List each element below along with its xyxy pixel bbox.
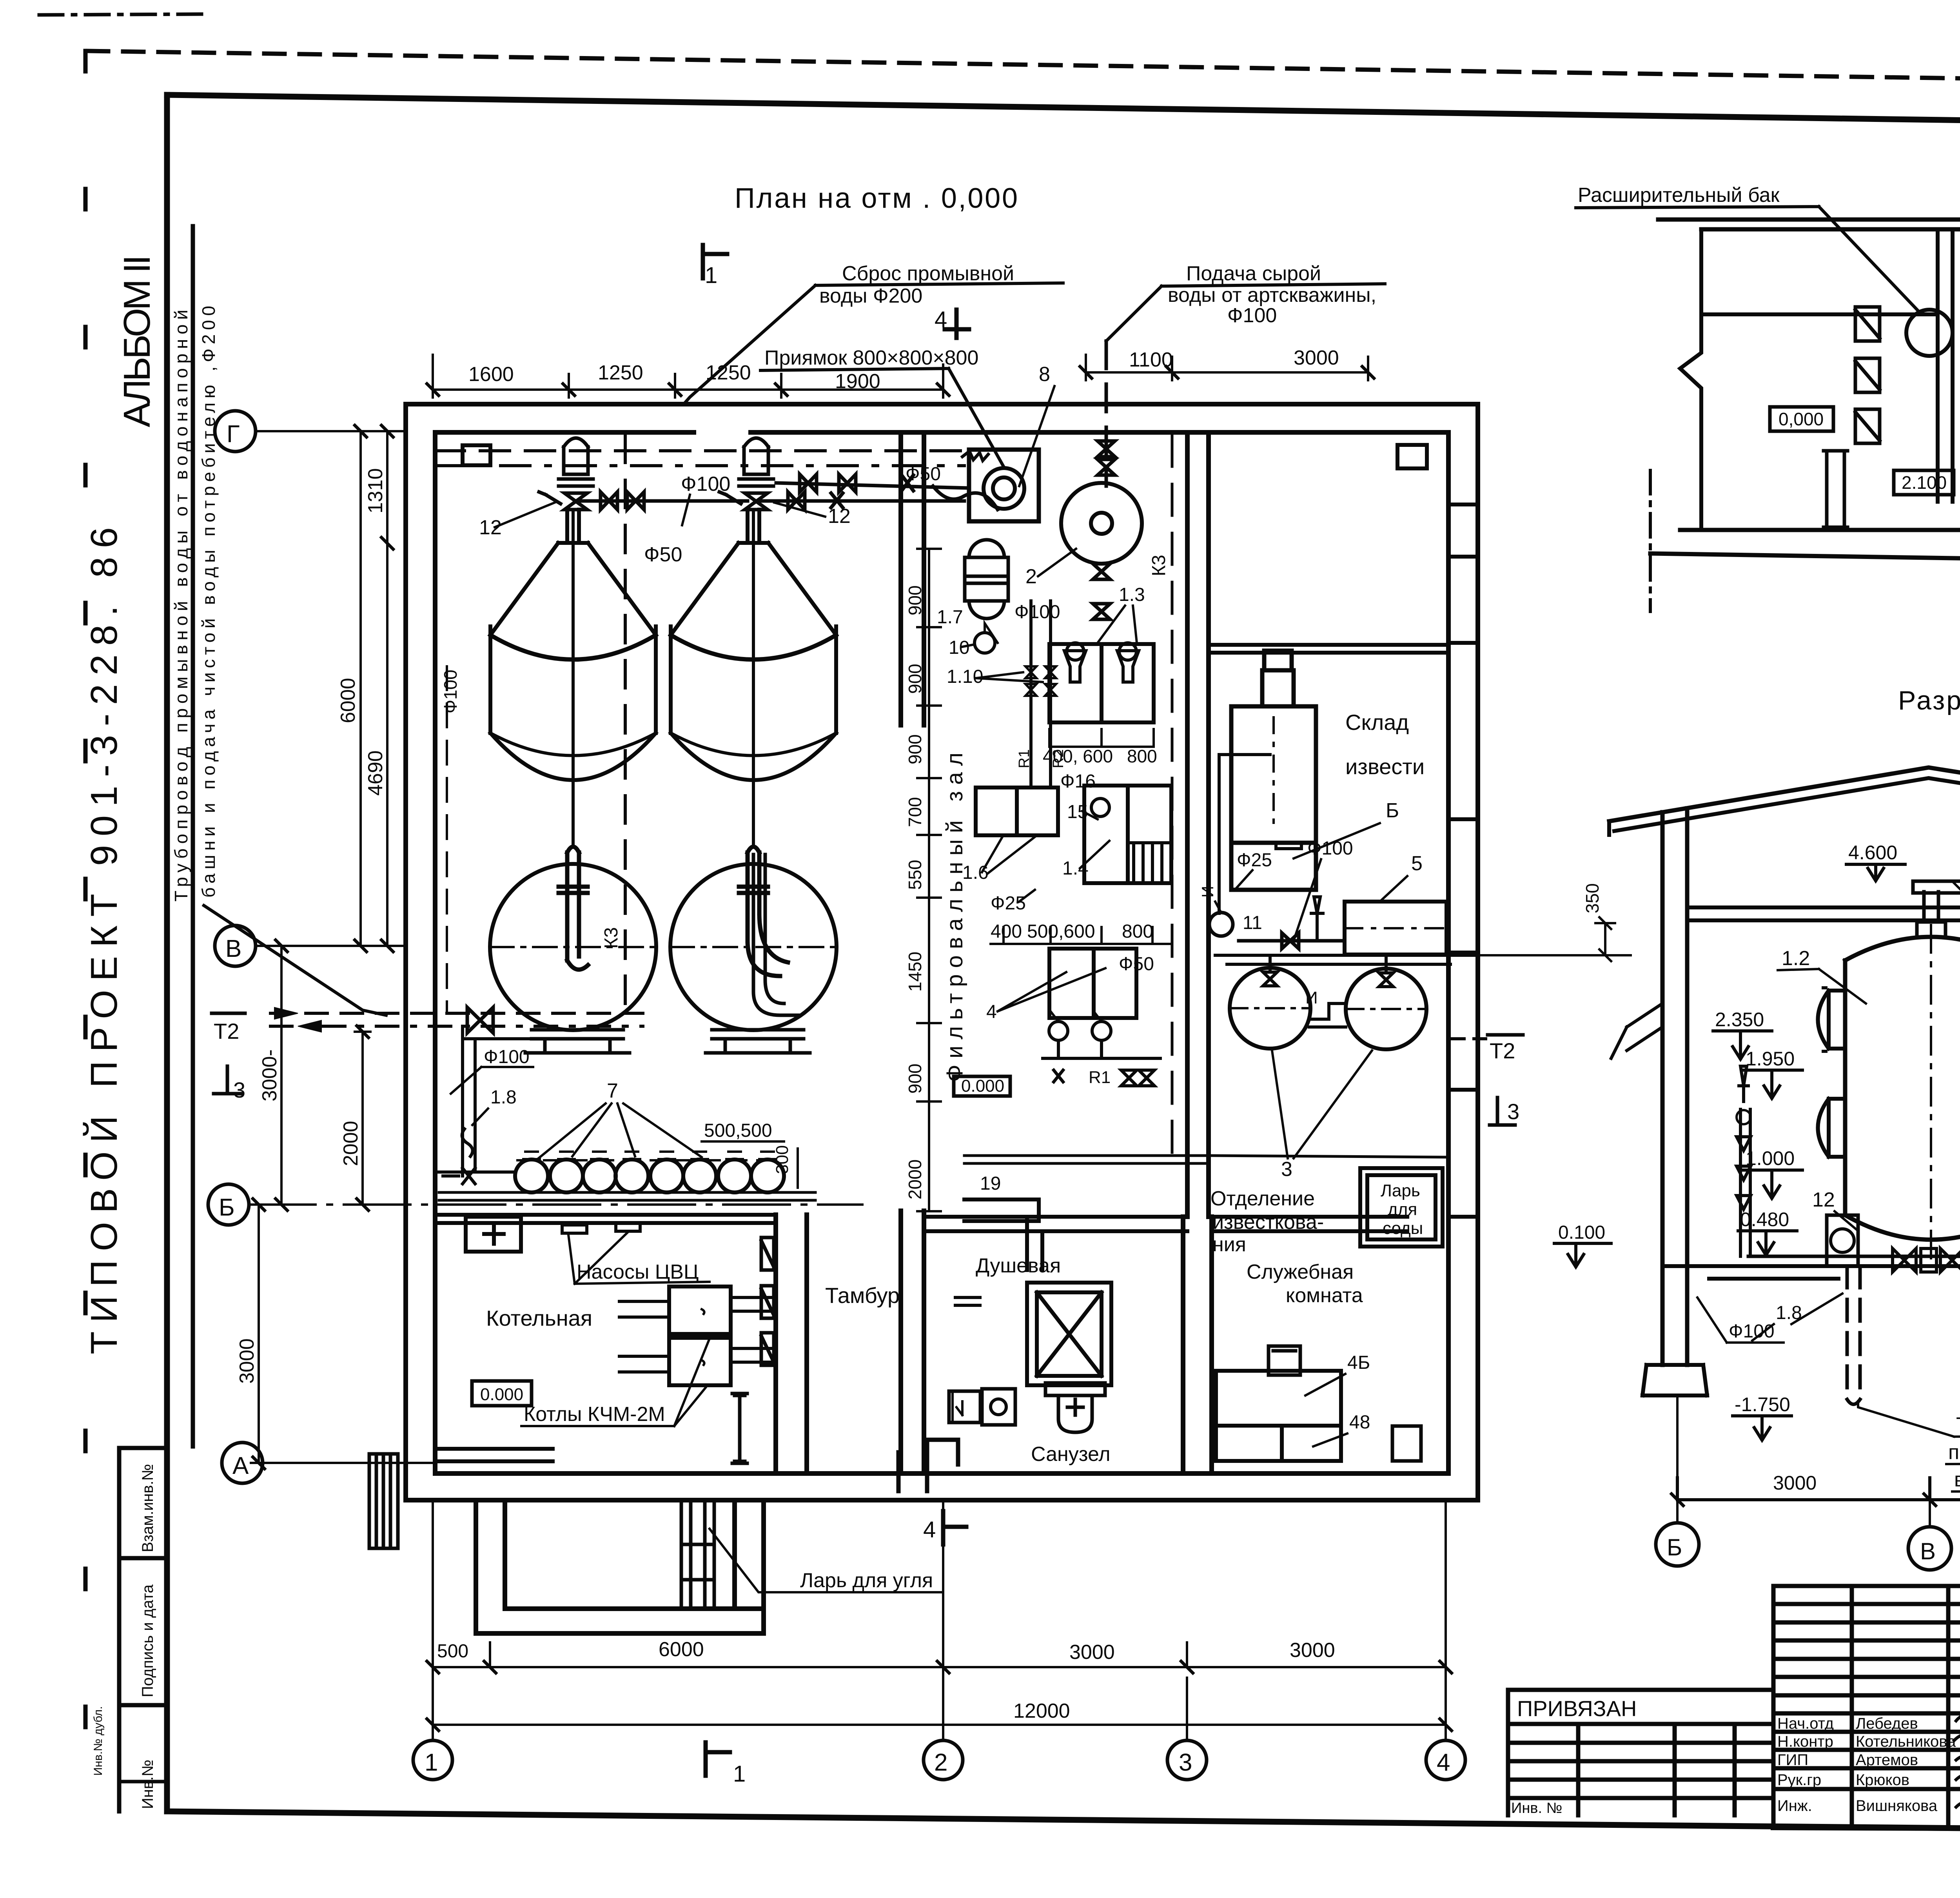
top wall lines — [1658, 215, 1960, 229]
hatched cabinets — [1855, 307, 1880, 443]
svg-text:1: 1 — [705, 263, 717, 288]
svg-text:2: 2 — [1025, 565, 1037, 588]
svg-text:3: 3 — [1281, 1158, 1292, 1181]
svg-text:2000: 2000 — [905, 1159, 925, 1199]
top dim chain 1600/1250/1250/1900 — [433, 355, 943, 397]
svg-text:Котлы КЧМ-2М: Котлы КЧМ-2М — [524, 1403, 665, 1426]
0.000 box filter hall — [954, 1076, 1010, 1096]
inner frame left — [164, 95, 170, 1811]
right tank drain elbow — [753, 855, 800, 1015]
bottom wall — [1650, 530, 1960, 568]
svg-text:Котельная: Котельная — [486, 1306, 592, 1330]
svg-text:7: 7 — [607, 1080, 618, 1102]
svg-text:1.8: 1.8 — [490, 1087, 517, 1108]
svg-text:Расширительный бак: Расширительный бак — [1578, 184, 1780, 207]
box 1.7 — [965, 557, 1008, 601]
grid bubble Б — [208, 1184, 249, 1225]
left dim 3000 (В-Б) — [274, 946, 290, 1205]
R1 R2 riser pipes — [1031, 601, 1051, 788]
svg-text:Крюков: Крюков — [1856, 1771, 1909, 1789]
long pipe y2437 — [1215, 955, 1478, 964]
svg-text:R1: R1 — [1016, 749, 1033, 768]
roof outline — [1609, 768, 1960, 850]
svg-text:Ф100: Ф100 — [1014, 602, 1060, 622]
chair — [1269, 1346, 1300, 1375]
svg-text:400: 400 — [991, 921, 1022, 942]
svg-text:Тамбур: Тамбур — [825, 1283, 900, 1308]
inner frame top — [167, 95, 1960, 129]
svg-text:800: 800 — [1122, 921, 1153, 942]
svg-text:Разрез 1-1: Разрез 1-1 — [1898, 686, 1960, 715]
filter vessel 1.2 right circle — [670, 864, 837, 1030]
svg-text:8: 8 — [1039, 363, 1050, 386]
piping below unit 4 — [1043, 1040, 1160, 1086]
leader from note to pipe T2 — [204, 905, 386, 1015]
svg-text:Б: Б — [219, 1194, 235, 1221]
level boxes — [1770, 407, 1833, 431]
tank 1.1 right: body — [671, 626, 836, 780]
inner frame bottom — [167, 1811, 1960, 1834]
svg-text:Сброс промывной: Сброс промывной — [842, 262, 1014, 285]
toilet — [1045, 1383, 1105, 1432]
tank nozzles left — [1818, 991, 1846, 1049]
svg-text:Подпись и дата: Подпись и дата — [139, 1584, 156, 1697]
raw water dashed drop — [1105, 341, 1108, 486]
svg-text:Лебедев: Лебедев — [1856, 1715, 1918, 1732]
radiators on wall — [761, 1238, 774, 1365]
tank 1.1 right: center pipe — [752, 510, 755, 847]
svg-text:Рук.гр: Рук.гр — [1777, 1771, 1821, 1789]
column I-beam at tambour — [732, 1394, 747, 1463]
svg-text:В: В — [225, 935, 241, 962]
svg-text:4: 4 — [986, 1002, 997, 1022]
svg-text:Ф100: Ф100 — [1227, 304, 1277, 327]
outer dashed sheet border left — [83, 51, 88, 1770]
floor line — [1662, 1266, 1960, 1279]
svg-text:1.000: 1.000 — [1746, 1147, 1795, 1169]
svg-text:11: 11 — [1243, 913, 1262, 933]
svg-text:10: 10 — [949, 637, 969, 658]
svg-text:800: 800 — [1127, 746, 1157, 766]
valves above pump 2 — [1098, 441, 1115, 475]
top dim chain 1100/3000 — [1086, 355, 1368, 380]
left break edge — [1680, 229, 1701, 530]
svg-text:Ф25: Ф25 — [1237, 850, 1272, 871]
svg-text:для: для — [1388, 1200, 1417, 1219]
grid bubble 4 — [1426, 1740, 1465, 1780]
outer wall left — [406, 404, 435, 1500]
svg-text:0.100: 0.100 — [1558, 1222, 1605, 1243]
left standpipe w/ valves — [1740, 1109, 1750, 1256]
svg-text:3000: 3000 — [1294, 347, 1339, 369]
svg-text:Приямок 800×800×800: Приямок 800×800×800 — [764, 347, 978, 369]
small boxes and leaders НасосыЦВЦ — [562, 1223, 640, 1233]
svg-text:4: 4 — [1437, 1749, 1450, 1776]
desk/sofa — [1216, 1371, 1341, 1461]
svg-text:Котельникова: Котельникова — [1856, 1733, 1956, 1750]
ladder left room — [1824, 451, 1847, 527]
pipe И down left of bin — [1219, 755, 1270, 913]
lime mixers 3 — [1230, 968, 1310, 1049]
svg-text:Ф50: Ф50 — [644, 543, 682, 566]
svg-text:2: 2 — [934, 1749, 947, 1776]
svg-text:3: 3 — [1507, 1099, 1519, 1124]
top pipe from tank — [1913, 881, 1960, 922]
svg-text:R2: R2 — [1050, 749, 1067, 768]
left dim chain 6000 — [353, 431, 406, 946]
left axis dash-dot — [1649, 470, 1652, 611]
expansion tank circle — [1906, 310, 1953, 356]
svg-text:1.3: 1.3 — [1119, 584, 1145, 605]
svg-text:Санузел: Санузел — [1031, 1443, 1111, 1466]
svg-text:воды Ф200: воды Ф200 — [819, 285, 922, 307]
lime water pipe across hall — [964, 1156, 1207, 1163]
privyazan table — [1508, 1690, 1773, 1815]
valve on left tank top — [539, 492, 587, 510]
svg-text:АЛЬБОМ II: АЛЬБОМ II — [116, 255, 158, 427]
vertical dim chain x2370 — [917, 549, 941, 1211]
K3 dashed riser — [624, 435, 627, 1015]
softener tank 1.1 left: cone — [490, 510, 656, 635]
electrical box with + — [466, 1217, 521, 1252]
svg-text:6000: 6000 — [659, 1638, 704, 1661]
svg-text:4Б: 4Б — [1347, 1352, 1370, 1373]
svg-text:Ф50: Ф50 — [1119, 954, 1154, 974]
svg-text:900: 900 — [905, 585, 925, 615]
salt boxes 1.6 — [976, 788, 1058, 835]
svg-text:500,600: 500,600 — [1027, 921, 1095, 942]
top wall inner small square — [463, 445, 490, 465]
softener tank 1.1 right: cone — [671, 510, 836, 635]
page top fold dash-dot line — [39, 14, 204, 15]
T2 dashed pipes entering left wall — [270, 1012, 643, 1015]
svg-text:Ларь для угля: Ларь для угля — [800, 1569, 933, 1592]
box 5 — [1345, 902, 1446, 954]
svg-text:известкова-: известкова- — [1212, 1211, 1324, 1234]
svg-text:Инв.№ дубл.: Инв.№ дубл. — [92, 1706, 105, 1776]
svg-text:Трубопровод промывной воды от: Трубопровод промывной воды от водонапорн… — [171, 310, 191, 902]
svg-text:извести: извести — [1345, 754, 1425, 779]
svg-text:3000: 3000 — [236, 1338, 258, 1384]
T2 pipe exit right + symbols — [1448, 1037, 1486, 1040]
svg-text:0.000: 0.000 — [480, 1385, 523, 1404]
svg-text:1.950: 1.950 — [1746, 1048, 1795, 1070]
svg-text:Б: Б — [1667, 1534, 1682, 1560]
pump 2 (degasser) — [1061, 483, 1142, 564]
pump pit box (приямок) — [969, 450, 1039, 521]
svg-text:Трубопровод подачи чистой: Трубопровод подачи чистой воды — [1956, 1414, 1960, 1436]
svg-text:300: 300 — [773, 1145, 792, 1174]
stair rect outside left — [369, 1454, 398, 1548]
svg-text:1100: 1100 — [1129, 348, 1173, 371]
svg-text:4: 4 — [935, 307, 947, 332]
svg-text:И: И — [1198, 886, 1217, 898]
coal chute — [681, 1500, 714, 1609]
grid bubble 2 — [924, 1740, 963, 1780]
grid bubble 3 — [1167, 1740, 1207, 1780]
svg-text:3000-: 3000- — [258, 1049, 281, 1101]
tank 1.1 left: top relief fitting — [559, 438, 593, 486]
svg-text:0,000: 0,000 — [1779, 409, 1824, 429]
wash pipe with valves y1232 — [776, 474, 969, 492]
svg-text:900: 900 — [905, 1063, 925, 1094]
svg-text:12000: 12000 — [1013, 1700, 1070, 1722]
svg-text:ПРИВЯЗАН: ПРИВЯЗАН — [1517, 1696, 1637, 1721]
svg-text:Инж.: Инж. — [1777, 1797, 1812, 1815]
svg-text:И: И — [1305, 988, 1318, 1007]
svg-text:Взам.инв.№: Взам.инв.№ — [139, 1464, 156, 1552]
grid bubble 1 — [413, 1740, 452, 1780]
svg-text:1: 1 — [733, 1761, 746, 1787]
svg-text:3: 3 — [233, 1078, 245, 1102]
svg-text:Ф100: Ф100 — [440, 670, 461, 713]
pipe between tank tops — [579, 499, 748, 503]
svg-text:Артемов: Артемов — [1856, 1751, 1918, 1769]
valves on floor pipe left — [1893, 1248, 1960, 1272]
svg-text:Ф100: Ф100 — [681, 473, 730, 495]
svg-text:Ф25: Ф25 — [991, 893, 1026, 914]
signature table — [1773, 1586, 1960, 1827]
svg-text:R1: R1 — [1089, 1068, 1111, 1087]
1.2 right supports — [706, 1030, 810, 1053]
Ларь для соды box — [1360, 1168, 1443, 1247]
valves below pump 2 — [1093, 564, 1110, 619]
bottom dim 12000 — [433, 1724, 1446, 1726]
pipe down inside wall — [463, 1026, 475, 1176]
shower block top wall — [924, 1217, 1187, 1231]
svg-text:12: 12 — [1812, 1189, 1835, 1211]
svg-text:Склад: Склад — [1345, 710, 1409, 735]
svg-text:водонапорной башни Ф200: водонапорной башни Ф200 — [1954, 1468, 1960, 1491]
outer wall top — [406, 404, 1478, 432]
boilers — [669, 1287, 731, 1385]
svg-text:350: 350 — [1582, 883, 1602, 913]
svg-text:4690: 4690 — [364, 750, 387, 796]
signatures squiggles — [1954, 1715, 1960, 1811]
stamp box Взам.инв.№ — [119, 1448, 167, 1811]
dim under filters — [1049, 729, 1154, 747]
svg-text:3000: 3000 — [1290, 1639, 1335, 1662]
bottom dim chain 500/6000/3000/3000 — [433, 1642, 1446, 1667]
svg-text:Т2: Т2 — [214, 1019, 239, 1043]
inner wall W1 vertical lower (tambour right) — [901, 1211, 924, 1473]
svg-text:Б: Б — [1386, 799, 1399, 822]
svg-text:ния: ния — [1212, 1233, 1246, 1256]
svg-text:Н.контр: Н.контр — [1777, 1733, 1833, 1750]
svg-text:Душевая: Душевая — [976, 1254, 1061, 1277]
left dim 2000 — [355, 1032, 370, 1205]
cabinet right — [1392, 1426, 1421, 1461]
stamp box Подпись и дата — [119, 1703, 167, 1707]
svg-text:4.600: 4.600 — [1848, 842, 1897, 864]
wall under upper-right room — [1209, 645, 1448, 653]
svg-text:3000: 3000 — [1069, 1641, 1115, 1664]
svg-text:Отделение: Отделение — [1210, 1187, 1315, 1210]
grid bubble А — [222, 1443, 263, 1483]
svg-text:Ф100: Ф100 — [1729, 1321, 1775, 1342]
pump foundation lines — [439, 1192, 815, 1200]
1.2 left supports — [525, 1030, 630, 1053]
svg-text:3000: 3000 — [1773, 1472, 1817, 1494]
svg-text:Инв.№: Инв.№ — [139, 1760, 156, 1809]
stamp box Инв № подл — [119, 1780, 167, 1784]
dim line 400/500,600/800 — [991, 927, 1171, 944]
svg-text:2.350: 2.350 — [1715, 1009, 1764, 1031]
pipes between mixers — [1309, 1003, 1346, 1027]
grid bubble В — [215, 925, 256, 966]
tank 1.1 left: body — [490, 626, 656, 780]
section mark 4 top — [945, 310, 969, 338]
twin unit 4 — [1049, 949, 1136, 1018]
svg-text:Ф16: Ф16 — [1060, 771, 1096, 792]
svg-text:1600: 1600 — [468, 363, 514, 386]
tank 1.2 cylinder — [1845, 960, 1960, 1215]
valve on T2 at wall — [467, 1007, 493, 1033]
svg-text:Служебная: Служебная — [1247, 1261, 1354, 1283]
svg-text:комната: комната — [1286, 1284, 1363, 1307]
svg-text:4: 4 — [923, 1517, 936, 1542]
svg-text:5: 5 — [1411, 852, 1423, 875]
svg-text:Инв. №: Инв. № — [1511, 1800, 1562, 1816]
K3 drain dashed line filter hall — [1171, 435, 1174, 1156]
valves between tanks — [601, 492, 644, 510]
left room walls — [1701, 229, 1953, 502]
svg-text:500,500: 500,500 — [704, 1120, 772, 1141]
svg-text:2.100: 2.100 — [1902, 472, 1947, 493]
left column — [1662, 808, 1687, 1365]
dim chain bottom — [1677, 1478, 1960, 1500]
top right room window sill box — [1397, 445, 1427, 468]
coal bin walls — [476, 1500, 764, 1633]
svg-text:соды: соды — [1383, 1219, 1423, 1238]
svg-text:1900: 1900 — [835, 370, 880, 393]
twin filters 1.3 — [1049, 644, 1154, 722]
pump row circles — [515, 1159, 548, 1192]
svg-text:Вишнякова: Вишнякова — [1856, 1797, 1938, 1815]
svg-text:12: 12 — [828, 505, 851, 528]
svg-text:башни и подача чистой воды пот: башни и подача чистой воды потребителю ,… — [198, 306, 219, 898]
svg-text:Г: Г — [227, 421, 240, 448]
svg-text:Ф100: Ф100 — [1307, 838, 1353, 859]
pipe tank2 to right w/ valves — [759, 492, 964, 510]
valve on right tank top — [719, 492, 768, 510]
svg-text:ГИП: ГИП — [1777, 1751, 1808, 1769]
svg-text:0.000: 0.000 — [961, 1076, 1004, 1096]
dashed suction line — [517, 1159, 784, 1161]
svg-text:500: 500 — [437, 1641, 468, 1662]
svg-text:Т2: Т2 — [1490, 1038, 1515, 1063]
section mark 1 bottom — [706, 1742, 730, 1776]
left dim chain 1310 / 4690 — [386, 431, 388, 946]
svg-text:6000: 6000 — [337, 678, 359, 723]
dim 350 right — [1595, 917, 1615, 961]
svg-text:900: 900 — [905, 664, 925, 694]
circle 10 with arrow — [975, 633, 995, 653]
svg-text:2000: 2000 — [339, 1121, 362, 1166]
svg-text:1.7: 1.7 — [937, 607, 963, 628]
svg-text:700: 700 — [905, 797, 925, 827]
pump under tank — [1827, 1215, 1858, 1266]
dashed feed lines along top wall — [435, 449, 964, 452]
right wall pilaster lines — [1448, 504, 1478, 1217]
svg-text:1450: 1450 — [905, 952, 925, 992]
svg-text:1310: 1310 — [364, 468, 387, 514]
lime bin Б — [1231, 651, 1316, 890]
svg-text:48: 48 — [1349, 1412, 1370, 1433]
shower block right wall — [1183, 1217, 1212, 1473]
section mark 4 bottom — [943, 1511, 966, 1544]
svg-text:Ф50: Ф50 — [906, 464, 941, 484]
filter vessel 1.2 left circle — [490, 864, 656, 1030]
boiler room right wall — [776, 1215, 807, 1473]
svg-text:19: 19 — [980, 1173, 1001, 1194]
grid bubble Г — [215, 411, 256, 452]
svg-text:-1.750: -1.750 — [1735, 1394, 1790, 1415]
dashed drop below floor — [1847, 1266, 1860, 1404]
inner wall W2 vertical (filter hall / right rooms) — [1187, 432, 1209, 1217]
outer wall right — [1448, 404, 1478, 1500]
svg-text:К3: К3 — [1149, 555, 1169, 576]
inner wall W1 vertical upper (tank hall / filter hall) — [901, 432, 924, 725]
svg-text:900: 900 — [905, 734, 925, 764]
tank 1.1 left: center pipe — [572, 510, 575, 847]
unit 1.4 / 1.5 — [1084, 786, 1171, 883]
svg-text:Ф100: Ф100 — [484, 1047, 530, 1067]
section mark 1 top — [703, 245, 727, 278]
svg-text:550: 550 — [905, 860, 925, 890]
service room top wall — [1212, 1217, 1407, 1231]
ceiling beam line — [1687, 907, 1960, 920]
svg-text:3: 3 — [1179, 1749, 1192, 1776]
svg-text:0.480: 0.480 — [1740, 1208, 1789, 1230]
svg-text:Подача сырой: Подача сырой — [1186, 262, 1321, 285]
svg-text:1250: 1250 — [598, 361, 643, 384]
room bottom thin wall — [435, 1449, 553, 1461]
wall stub above WC — [1027, 1217, 1042, 1270]
boiler room top wall — [435, 1215, 776, 1223]
section axis bubbles — [1656, 1523, 1699, 1566]
left dim 3000 (Б-А) — [251, 1205, 267, 1463]
svg-text:План на отм . 0,000: План на отм . 0,000 — [735, 183, 1021, 214]
tank 1.1 right: top relief fitting — [739, 438, 773, 486]
svg-text:А: А — [232, 1452, 249, 1479]
svg-text:Ларь: Ларь — [1381, 1181, 1420, 1200]
svg-text:1.2: 1.2 — [1782, 947, 1810, 970]
pump 11 — [1209, 913, 1233, 936]
divider line right of rotated titles — [191, 226, 195, 1446]
svg-text:1: 1 — [425, 1749, 438, 1776]
svg-text:К3: К3 — [601, 927, 622, 949]
sink and bench — [949, 1389, 1015, 1425]
svg-text:Нач.отд: Нач.отд — [1777, 1715, 1834, 1732]
svg-text:12: 12 — [479, 516, 502, 539]
porch square below WC — [898, 1440, 958, 1491]
svg-text:1.4: 1.4 — [1062, 858, 1089, 879]
svg-text:потребителю и промывной вод: потребителю и промывной воды от — [1948, 1441, 1960, 1464]
tank 1.2 axis — [1930, 925, 1932, 1266]
K3 floor pipe — [1748, 1256, 1960, 1266]
outer dashed sheet border top — [88, 51, 1960, 87]
outer wall bottom — [406, 1473, 1478, 1500]
svg-text:В: В — [1920, 1538, 1936, 1564]
